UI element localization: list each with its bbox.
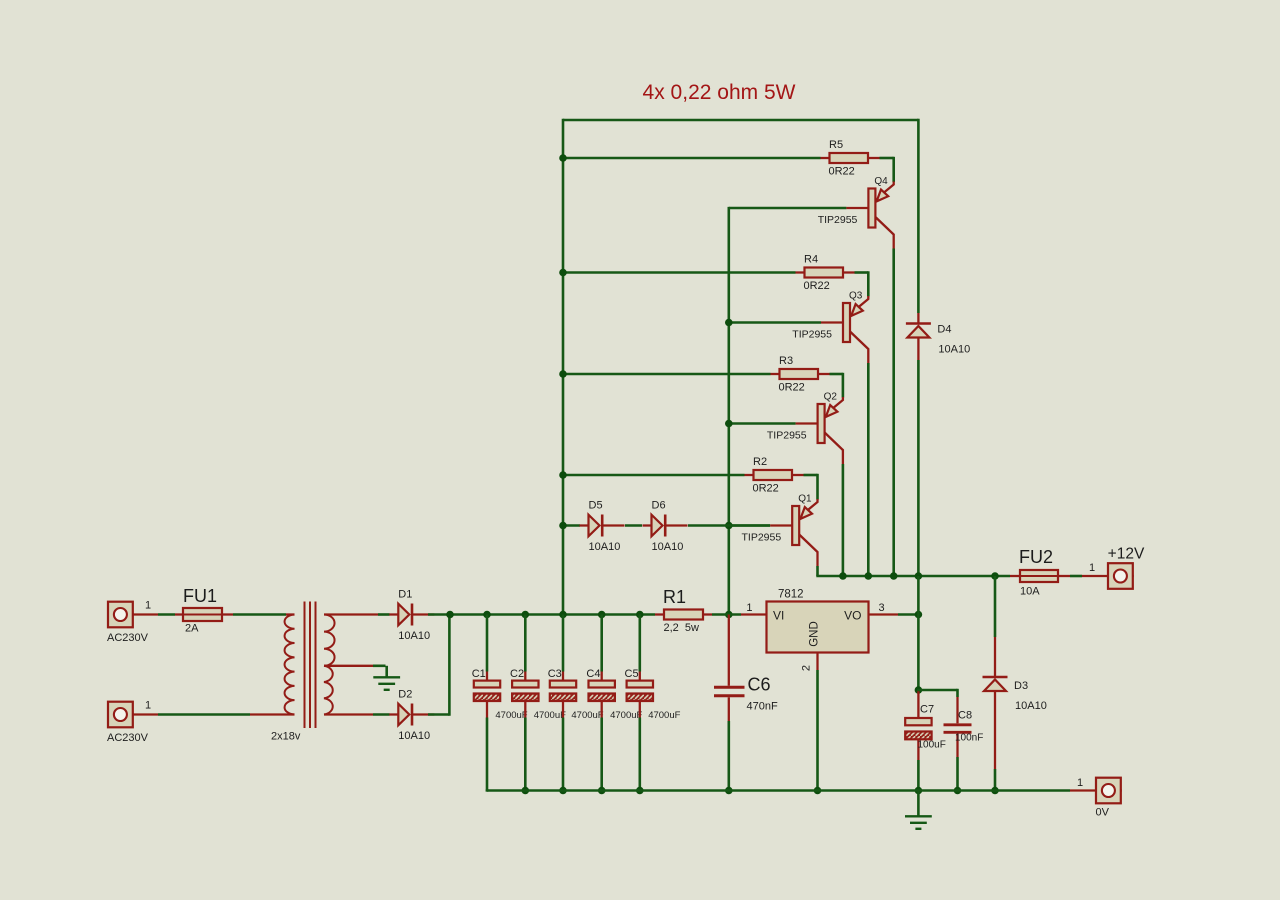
svg-text:+12V: +12V [1108,546,1145,563]
svg-text:C4: C4 [586,668,600,680]
svg-text:R1: R1 [663,587,686,607]
svg-text:2x18v: 2x18v [271,731,301,743]
svg-text:VO: VO [844,609,861,623]
svg-text:TIP2955: TIP2955 [818,214,858,226]
svg-text:2: 2 [801,665,813,671]
svg-text:4700uF: 4700uF [534,710,566,721]
svg-text:1: 1 [1077,777,1083,789]
svg-text:1: 1 [145,700,151,712]
svg-text:R5: R5 [829,139,843,151]
svg-text:1: 1 [1089,562,1095,574]
svg-text:GND: GND [809,621,821,647]
svg-text:0V: 0V [1096,807,1110,819]
svg-text:10A10: 10A10 [589,541,621,553]
svg-text:10A10: 10A10 [652,541,684,553]
svg-text:4700uF: 4700uF [648,710,680,721]
svg-text:10A: 10A [1020,586,1040,598]
svg-text:4700uF: 4700uF [495,710,527,721]
svg-text:VI: VI [773,609,784,623]
svg-text:AC230V: AC230V [107,732,149,744]
svg-text:R4: R4 [804,254,818,266]
svg-text:100uF: 100uF [918,740,946,751]
svg-text:C3: C3 [548,668,562,680]
svg-text:3: 3 [879,602,885,614]
svg-text:1: 1 [746,602,752,614]
svg-text:7812: 7812 [778,589,804,601]
svg-text:TIP2955: TIP2955 [741,532,781,544]
svg-text:0R22: 0R22 [779,382,805,394]
svg-text:FU2: FU2 [1019,547,1053,567]
svg-text:1: 1 [145,600,151,612]
svg-text:4x 0,22 ohm 5W: 4x 0,22 ohm 5W [643,81,796,104]
svg-text:0R22: 0R22 [829,166,855,178]
svg-text:D4: D4 [937,324,951,336]
svg-text:100nF: 100nF [955,733,983,744]
svg-text:C6: C6 [748,675,771,695]
svg-text:4700uF: 4700uF [571,710,603,721]
svg-text:Q1: Q1 [798,494,812,505]
svg-text:FU1: FU1 [183,586,217,606]
svg-text:4700uF: 4700uF [610,710,642,721]
svg-text:R3: R3 [779,355,793,367]
svg-text:0R22: 0R22 [753,483,779,495]
svg-text:2,2 5w: 2,2 5w [664,622,700,634]
svg-text:D6: D6 [652,500,666,512]
svg-text:0R22: 0R22 [804,280,830,292]
svg-text:2A: 2A [185,623,199,635]
svg-text:D2: D2 [398,689,412,701]
svg-text:C7: C7 [920,704,934,716]
svg-text:D5: D5 [589,500,603,512]
svg-text:470nF: 470nF [747,701,778,713]
svg-text:10A10: 10A10 [398,730,430,742]
svg-text:D3: D3 [1014,680,1028,692]
svg-text:10A10: 10A10 [1015,700,1047,712]
svg-text:C5: C5 [625,668,639,680]
svg-text:Q3: Q3 [849,291,863,302]
svg-text:TIP2955: TIP2955 [767,430,807,442]
svg-text:C2: C2 [510,668,524,680]
svg-text:10A10: 10A10 [938,344,970,356]
svg-text:C1: C1 [472,668,486,680]
svg-text:Q4: Q4 [874,176,888,187]
svg-text:R2: R2 [753,456,767,468]
svg-text:C8: C8 [958,710,972,722]
svg-text:TIP2955: TIP2955 [792,329,832,341]
svg-text:D1: D1 [398,589,412,601]
svg-text:AC230V: AC230V [107,632,149,644]
svg-text:Q2: Q2 [824,392,838,403]
svg-text:10A10: 10A10 [398,630,430,642]
